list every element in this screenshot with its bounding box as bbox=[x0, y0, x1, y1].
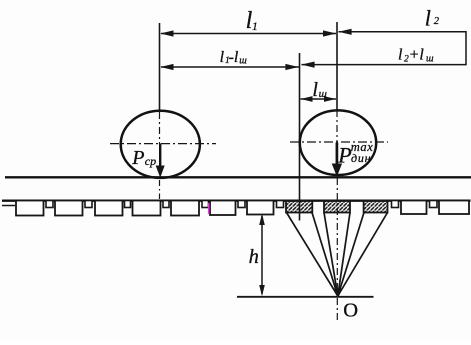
rail pad notches (small rectangles) bbox=[46, 201, 437, 208]
svg-text:l: l bbox=[312, 79, 318, 101]
label lsh bbox=[312, 79, 327, 101]
svg-text:O: O bbox=[343, 300, 358, 322]
right border extension line (x=466) bbox=[465, 31, 467, 65]
svg-text:l: l bbox=[398, 47, 403, 64]
svg-text:h: h bbox=[249, 246, 259, 268]
magenta scan artifact bbox=[208, 203, 210, 214]
right wheel horizontal centerline bbox=[290, 141, 388, 143]
label P_din_max bbox=[337, 140, 373, 168]
extension line right wheel center top (x=337) bbox=[336, 22, 338, 110]
svg-text:ш: ш bbox=[319, 88, 327, 100]
dimension line l1-lsh (row 2 left) bbox=[160, 64, 299, 70]
svg-text:ш: ш bbox=[239, 56, 247, 67]
pressure fan line from x=350 bbox=[338, 213, 350, 297]
svg-text:+l: +l bbox=[409, 47, 425, 64]
ground line bbox=[237, 296, 374, 298]
force arrow P_din_max bbox=[332, 143, 342, 177]
svg-text:l: l bbox=[425, 5, 431, 30]
left stub line bbox=[2, 205, 15, 207]
right wheel vertical centerline bbox=[336, 110, 338, 142]
pressure fan line from x=364 bbox=[338, 213, 364, 297]
label l1-lsh bbox=[220, 49, 248, 67]
label h bbox=[249, 246, 259, 268]
svg-text:ср: ср bbox=[145, 154, 156, 168]
fan apex ink blob bbox=[334, 289, 343, 298]
left wheel horizontal centerline bbox=[110, 143, 216, 145]
svg-text:дин: дин bbox=[351, 151, 371, 165]
loaded sleeper (hatched) 2 bbox=[324, 201, 350, 213]
svg-text:1: 1 bbox=[252, 21, 258, 33]
sleepers (white rectangles) bbox=[16, 201, 469, 216]
point O label bbox=[343, 300, 358, 322]
label P_sr bbox=[131, 147, 156, 169]
svg-text:2: 2 bbox=[434, 16, 440, 27]
pressure fan line from x=286 bbox=[287, 213, 338, 297]
label l1 bbox=[246, 8, 258, 34]
dimension line l1 (row 1 left) bbox=[160, 30, 336, 36]
loaded sleeper (hatched) 3 bbox=[364, 201, 388, 213]
left wheel vertical centerline bbox=[159, 112, 161, 144]
right wheel bbox=[300, 110, 376, 175]
depth dimension h bbox=[259, 214, 265, 297]
extension line sleeper edge (x=299) bbox=[299, 53, 301, 221]
extension line left wheel center (x=159) bbox=[159, 23, 161, 112]
dimension line l2 (row 1 right) bbox=[338, 29, 466, 35]
left wheel centerline below rail bbox=[159, 180, 161, 199]
dimension line lsh (row 3) bbox=[301, 96, 337, 102]
svg-text:-l: -l bbox=[229, 49, 239, 66]
center axis dash-dot below rail (x=337) bbox=[336, 178, 338, 321]
pressure fan line from x=324 bbox=[324, 213, 338, 297]
left wheel bbox=[121, 111, 200, 178]
dimension line l2+lsh (row 2 right) bbox=[301, 62, 466, 68]
svg-text:ш: ш bbox=[426, 53, 434, 64]
sleeper band top line bbox=[2, 199, 471, 201]
rail line bbox=[5, 176, 471, 178]
force arrow P_sr bbox=[156, 144, 165, 178]
loaded sleeper (hatched) 1 bbox=[286, 201, 312, 213]
label l2 bbox=[425, 5, 440, 30]
svg-text:P: P bbox=[131, 147, 144, 169]
pressure fan line from x=312 bbox=[312, 213, 338, 297]
label l2+lsh bbox=[398, 47, 434, 65]
svg-text:P: P bbox=[337, 143, 351, 168]
pressure fan line from x=387.5 bbox=[338, 213, 388, 297]
svg-text:l: l bbox=[220, 49, 225, 66]
